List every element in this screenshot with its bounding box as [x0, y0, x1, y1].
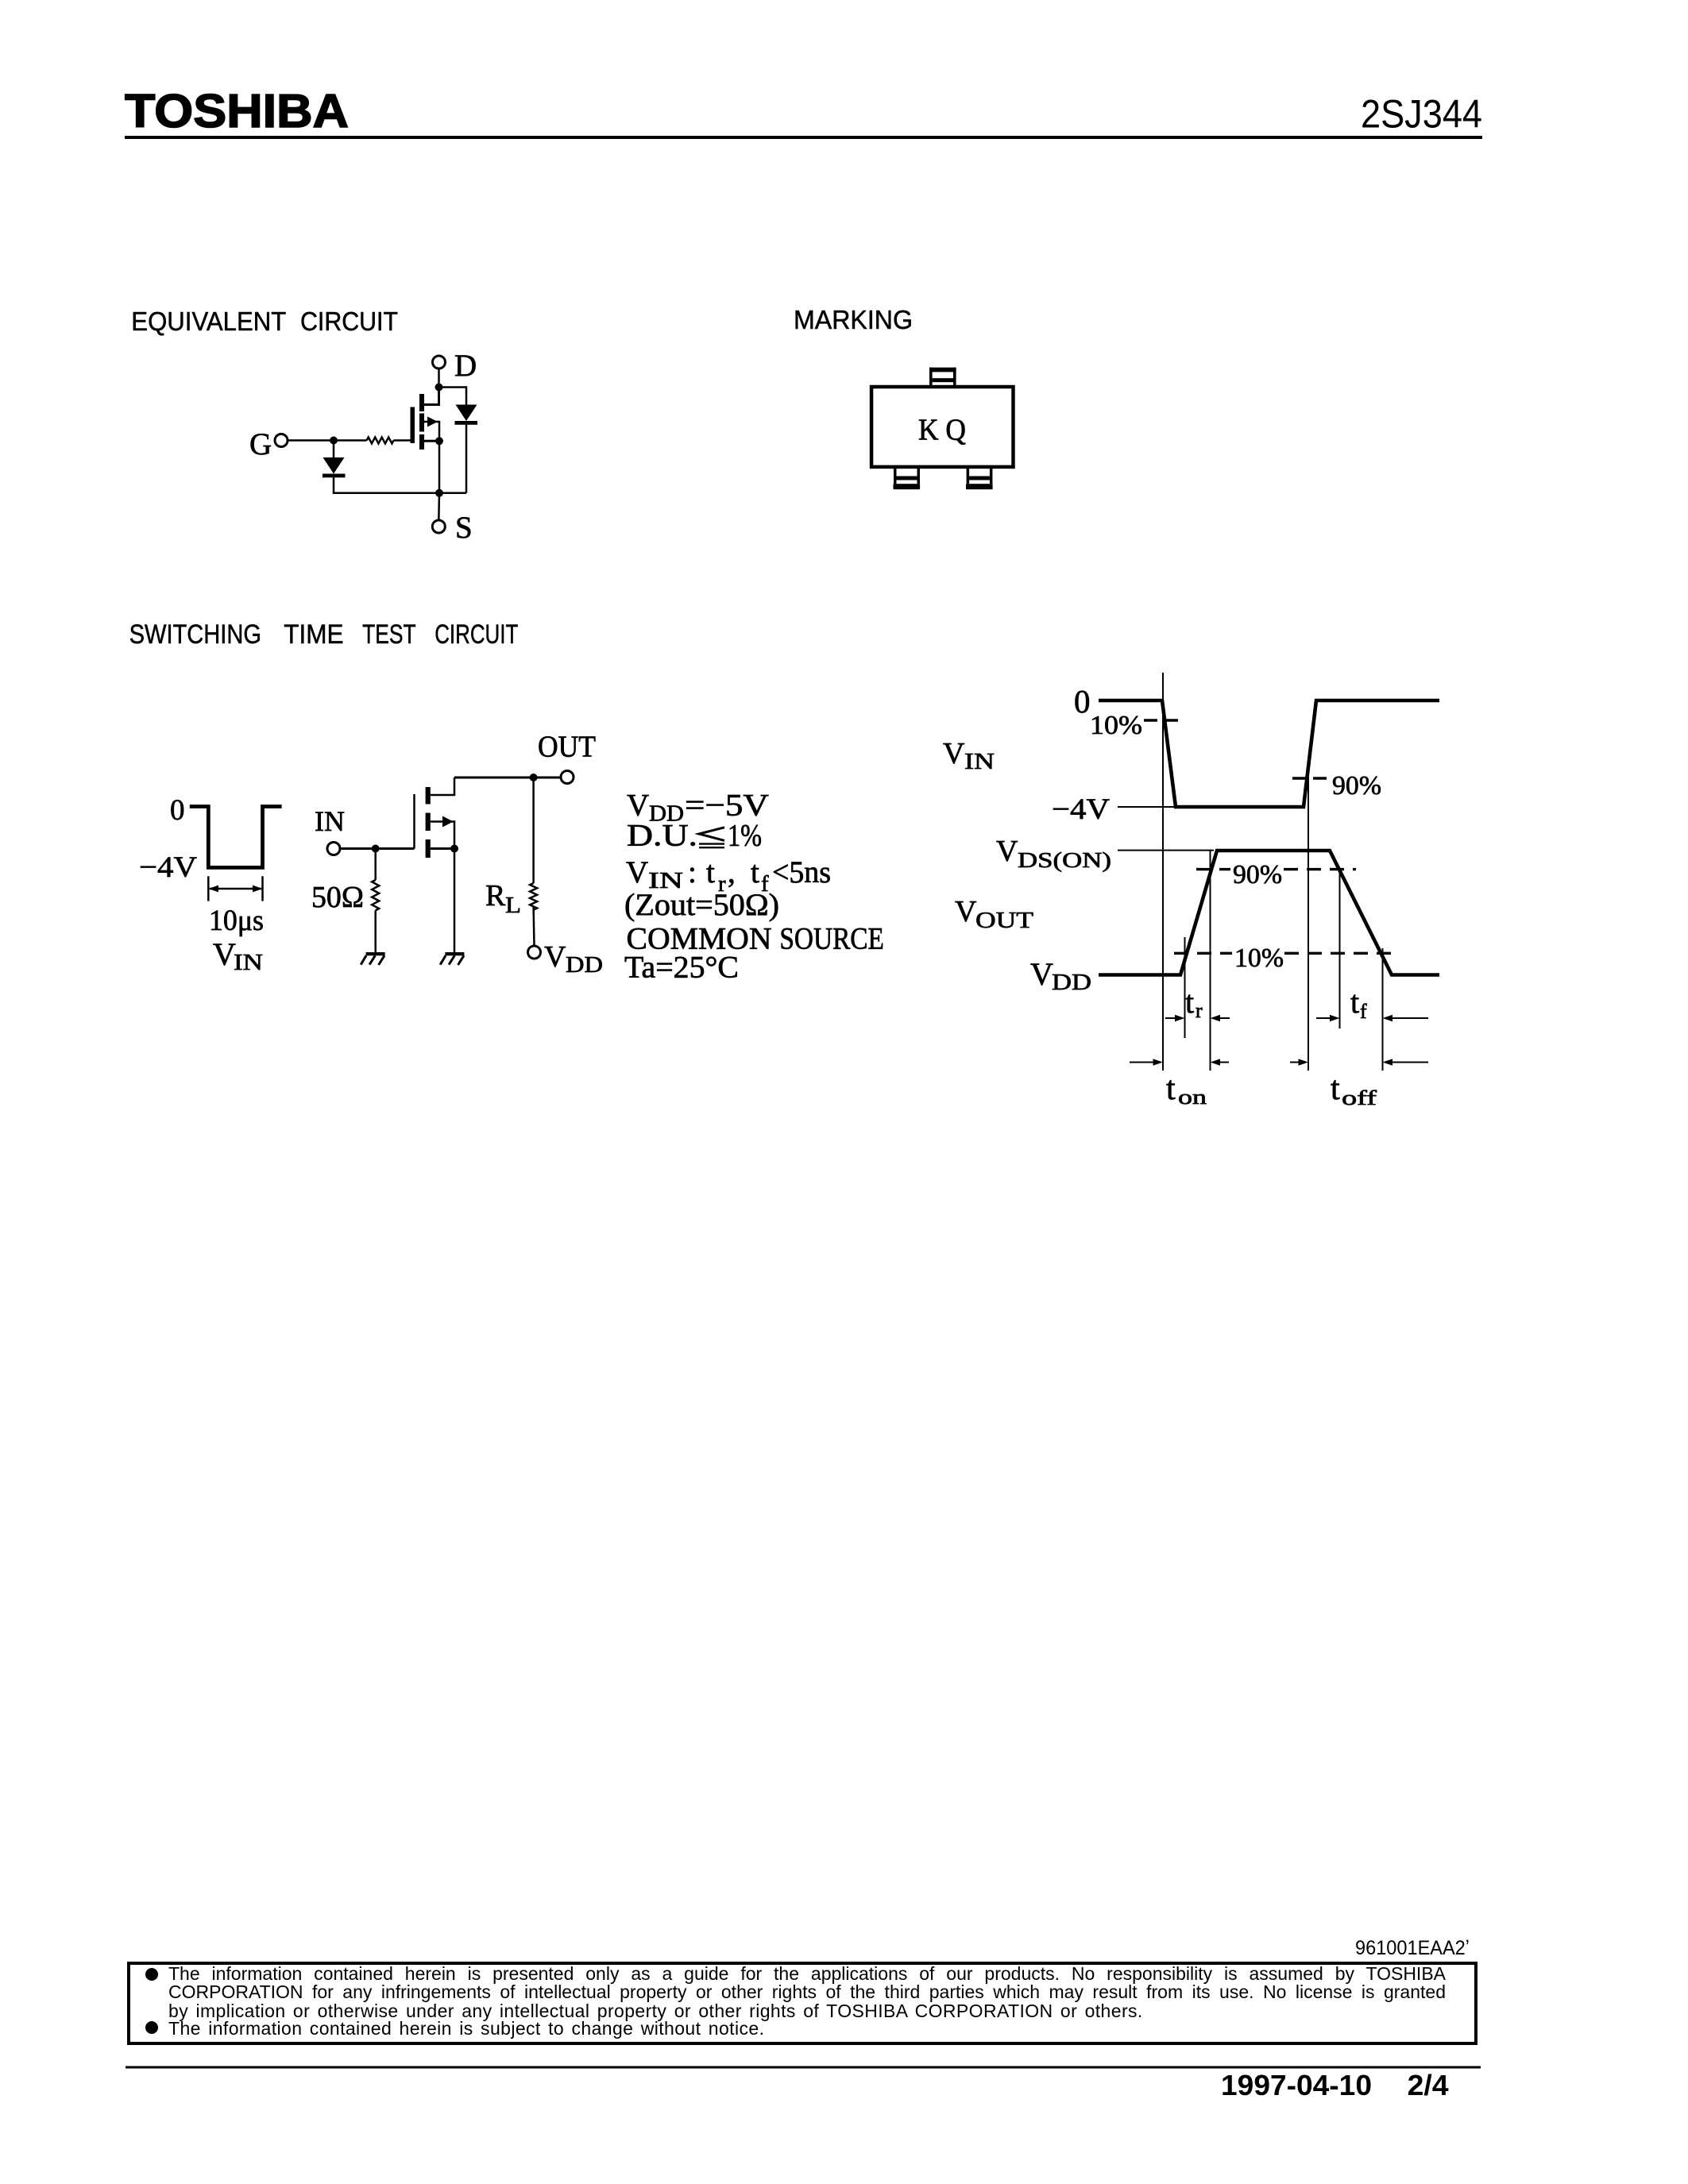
svg-text:D.U.: D.U. [627, 819, 697, 853]
terminal OUT [561, 771, 574, 784]
node OUT junction [530, 774, 538, 781]
label tr [1185, 984, 1203, 1022]
svg-text:R: R [485, 879, 506, 913]
svg-text:DD: DD [1052, 970, 1091, 995]
node IN junction [372, 845, 380, 853]
disclaimer box [129, 1963, 1476, 2043]
label VIN (input pulse) [213, 936, 263, 975]
svg-text:TOSHIBA: TOSHIBA [125, 85, 349, 137]
node source junction [450, 845, 458, 853]
svg-text:V: V [626, 855, 648, 889]
dimension arrow 10us [208, 886, 262, 893]
svg-text:r: r [1196, 999, 1203, 1022]
label tf [1350, 984, 1367, 1023]
condition VDD=-5V [627, 789, 769, 827]
wire to R2 [374, 849, 377, 881]
svg-text:f: f [1360, 1000, 1367, 1023]
tick right (pulse width) [261, 876, 264, 901]
wire diode cathode down [465, 425, 468, 493]
wire diode anode [465, 386, 468, 405]
condition VIN : tr, tf<5ns [626, 855, 831, 897]
svg-text:D: D [454, 349, 477, 383]
dashed 90% (VIN) [1292, 777, 1329, 779]
svg-text:t: t [706, 855, 715, 889]
svg-text::: : [688, 855, 697, 889]
svg-text:V: V [955, 895, 977, 928]
label VIN (waveform) [943, 737, 995, 774]
condition D.U. less-equal 1% [627, 819, 762, 853]
svg-text:IN: IN [234, 950, 263, 975]
waveform VOUT trace [1099, 851, 1439, 975]
wire resistor to gate [394, 439, 411, 442]
svg-text:(Zout=50Ω): (Zout=50Ω) [624, 888, 779, 922]
wire Q1 source lead [424, 440, 439, 442]
svg-text:90%: 90% [1233, 860, 1282, 889]
disclaimer text [168, 1965, 1446, 1983]
label VDD (terminal) [544, 940, 603, 978]
wire Q2 gate line [413, 794, 415, 849]
body diode D2 [455, 405, 478, 425]
svg-text:t: t [1331, 1071, 1340, 1107]
node gate junction [330, 437, 338, 445]
svg-text:t: t [1350, 984, 1359, 1020]
label VDS(ON) [996, 835, 1111, 872]
reference line VOUT 10% rise [1184, 937, 1186, 1038]
svg-text:0: 0 [1074, 683, 1091, 720]
waveform VIN trace [1099, 700, 1439, 807]
terminal VDD [528, 946, 541, 959]
svg-text:IN: IN [315, 805, 345, 837]
disclaimer bullet 2 [145, 2021, 158, 2034]
svg-text:V: V [627, 789, 649, 823]
terminal IN [327, 843, 340, 855]
svg-text:0: 0 [170, 794, 185, 827]
dimension arrows tr [1165, 1015, 1230, 1021]
svg-text:SOURCE: SOURCE [779, 922, 884, 956]
svg-text:V: V [1030, 956, 1053, 992]
wire G to resistor [288, 439, 367, 442]
pin 2 tab (bottom right) [966, 467, 993, 489]
reference line VOUT 90% rise [1210, 851, 1211, 1071]
svg-text:MARKING: MARKING [794, 306, 913, 335]
wire Q1 drain lead [424, 388, 439, 405]
svg-text:<5ns: <5ns [772, 855, 831, 889]
svg-text:Ta=25°C: Ta=25°C [624, 951, 739, 985]
condition COMMON SOURCE [627, 922, 884, 956]
wire D to node [438, 369, 440, 388]
node source rail junction [435, 489, 443, 497]
svg-text:off: off [1342, 1086, 1377, 1109]
header rule [125, 136, 1482, 139]
resistor R1 (gate series) [367, 438, 394, 444]
title SWITCHING TIME TEST CIRCUIT [129, 619, 519, 650]
svg-text:CIRCUIT: CIRCUIT [435, 619, 518, 650]
svg-text:TEST: TEST [362, 619, 415, 650]
label ton [1166, 1071, 1207, 1109]
svg-text:t: t [751, 855, 759, 889]
reference line VOUT 10% fall [1382, 948, 1384, 1071]
svg-text:EQUIVALENT: EQUIVALENT [131, 307, 286, 337]
ground (source side) [440, 952, 464, 965]
dimension arrows ton [1130, 1059, 1229, 1065]
dashed 10% (VIN) [1144, 719, 1181, 721]
pin 1 tab (bottom left) [894, 467, 921, 489]
title EQUIVALENT CIRCUIT [131, 307, 398, 337]
resistor R2 50ohm [372, 880, 379, 910]
svg-text:DD: DD [566, 953, 603, 978]
svg-text:V: V [996, 835, 1018, 868]
label VDD (waveform) [1030, 956, 1091, 995]
resistor R3 RL [530, 883, 537, 910]
footer rule [126, 2066, 1481, 2069]
wire IN to gate [340, 847, 415, 850]
leader line -4V level [1118, 806, 1176, 808]
svg-text:V: V [943, 737, 965, 770]
svg-text:t: t [1185, 984, 1194, 1020]
svg-text:G: G [249, 427, 272, 461]
wire drain node to diode branch [439, 386, 467, 388]
svg-text:10%: 10% [1090, 711, 1142, 740]
svg-text:IN: IN [964, 750, 995, 774]
wire source down [438, 441, 441, 493]
transistor Q2 (P-ch MOSFET) [426, 787, 454, 858]
wire OUT node to RL [532, 778, 535, 883]
svg-text:OUT: OUT [538, 731, 596, 764]
dimension arrows toff [1290, 1059, 1428, 1065]
svg-text:1997-04-10: 1997-04-10 [1221, 2069, 1372, 2101]
tick left (pulse width) [207, 876, 210, 901]
reference line t0 (VIN fall) [1162, 673, 1164, 1071]
svg-text:V: V [544, 940, 566, 974]
svg-text:S: S [455, 511, 473, 545]
package body (SOT-346) [871, 387, 1013, 467]
node source junction [435, 437, 443, 445]
svg-text:10%: 10% [1234, 943, 1284, 973]
ground (input side) [361, 952, 384, 965]
dashed 10% (VOUT) [1174, 952, 1400, 955]
svg-text:CIRCUIT: CIRCUIT [300, 307, 398, 337]
svg-text:on: on [1178, 1086, 1207, 1109]
wire Q1 body lead [424, 422, 439, 441]
svg-text:TIME: TIME [284, 619, 343, 650]
svg-text:−4V: −4V [1052, 793, 1110, 826]
svg-text:t: t [1166, 1071, 1176, 1107]
pin 3 tab (top) [929, 368, 956, 385]
label toff [1331, 1071, 1377, 1109]
wire R2 to ground [374, 910, 377, 952]
svg-text:SWITCHING: SWITCHING [129, 619, 261, 650]
svg-text:10μs: 10μs [209, 905, 264, 937]
terminal D [433, 356, 446, 369]
wire gate diode cathode to source rail [334, 477, 466, 493]
svg-text:2SJ344: 2SJ344 [1361, 92, 1482, 137]
wire RL to VDD terminal [532, 907, 535, 946]
svg-text:=−5V: =−5V [685, 789, 769, 823]
wire Q2 body lead [431, 822, 454, 849]
reference line VIN 90% rise [1308, 777, 1309, 1071]
wire to S terminal [438, 493, 440, 520]
svg-text:OUT: OUT [975, 909, 1033, 933]
wire drain to OUT [454, 777, 561, 779]
label VOUT [955, 895, 1033, 933]
reference line VOUT 90% fall [1339, 870, 1341, 1028]
node drain junction [435, 384, 443, 392]
input pulse waveform VIN [190, 807, 282, 868]
disclaimer bullet 1 [145, 1968, 158, 1981]
wire Q2 source lead [431, 847, 454, 850]
dimension arrows tf [1316, 1015, 1428, 1021]
svg-text:K Q: K Q [918, 414, 966, 447]
svg-text:961001EAA2ʼ: 961001EAA2ʼ [1355, 1937, 1470, 1959]
label RL [485, 879, 521, 918]
svg-text:L: L [505, 893, 521, 918]
svg-text:50Ω: 50Ω [311, 881, 364, 914]
wire source to ground [454, 849, 456, 953]
transistor Q1 (P-ch MOSFET) [411, 394, 438, 450]
leader line VDS(ON) level [1118, 850, 1214, 851]
svg-text:1%: 1% [728, 819, 762, 853]
svg-text:−4V: −4V [139, 851, 197, 884]
svg-text:V: V [213, 936, 236, 972]
terminal S [432, 520, 445, 533]
dashed 90% (VOUT) [1196, 868, 1356, 870]
terminal G [275, 434, 288, 447]
svg-text:DS(ON): DS(ON) [1018, 848, 1111, 872]
diode D1 (gate protection) [323, 457, 346, 477]
svg-text:2/4: 2/4 [1408, 2069, 1449, 2101]
svg-text:,: , [728, 855, 736, 889]
wire Q2 drain lead [431, 778, 454, 795]
svg-text:90%: 90% [1332, 771, 1381, 801]
wire gate diode anode [333, 441, 335, 458]
